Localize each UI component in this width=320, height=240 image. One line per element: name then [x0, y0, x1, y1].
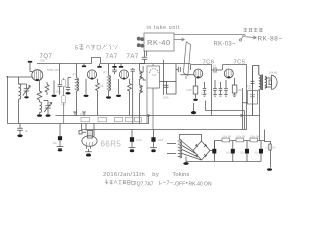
- right link lines: [242, 103, 253, 115]
- resistor boxes between buses: [81, 117, 142, 122]
- tube 7C5 V5: [224, 69, 233, 78]
- svg-text:66R5: 66R5: [101, 140, 122, 149]
- tube 7C6 V4: [194, 69, 203, 78]
- blob ground tube1 cathode: [52, 95, 57, 97]
- wire bus3 y129.5: [82, 116, 247, 130]
- svg-text:RK-03~: RK-03~: [214, 41, 237, 47]
- tube 7A7 V3: [119, 70, 128, 79]
- svg-text:-OFF: -OFF: [174, 181, 186, 187]
- svg-text:100n 2W: 100n 2W: [250, 136, 260, 138]
- wire 7C6 plate frame: [191, 65, 212, 116]
- cap left of tube3: [112, 68, 118, 94]
- blob ground PT: [183, 162, 188, 165]
- power transformer PT: [167, 135, 202, 159]
- svg-text:Tokinx: Tokinx: [172, 172, 189, 178]
- cap 47n box: [248, 91, 258, 105]
- filter electrolytics: [214, 141, 216, 162]
- grid box 7C6: [160, 60, 177, 95]
- resistor R osc: [37, 81, 42, 102]
- antenna coil L1: [7, 76, 32, 124]
- svg-text:200n: 200n: [40, 60, 46, 63]
- capacitor 47u on output line: [251, 81, 255, 83]
- svg-text:5: 5: [75, 46, 78, 52]
- ground blob osc coil: [37, 114, 42, 116]
- svg-text:2016/Jan/11th: 2016/Jan/11th: [103, 172, 145, 178]
- wire bus1 y115.5: [56, 115, 260, 117]
- connector jacks on RK-40: [137, 37, 144, 48]
- svg-text:RK-88~: RK-88~: [258, 36, 283, 43]
- svg-text:47u: 47u: [247, 85, 252, 88]
- junction arrow marks on bus1: [148, 114, 244, 116]
- blob ground IFT2: [106, 96, 111, 98]
- svg-text:10KxB: 10KxB: [269, 71, 278, 75]
- bleeder resistor 1k 2W: [265, 130, 272, 168]
- IFT2 transformer: [107, 64, 111, 97]
- svg-text:473: 473: [61, 103, 66, 107]
- bottom rail power: [186, 161, 261, 163]
- IFT1 transformer: [66, 64, 79, 116]
- screen cap blobs row: [84, 64, 121, 67]
- fake glyphs 球ヘテロダイン: [80, 44, 118, 50]
- heater stubs: [73, 112, 86, 116]
- svg-text:10u: 10u: [240, 152, 245, 155]
- wire 7C5 plate frame: [223, 65, 247, 116]
- svg-text:10uF: 10uF: [158, 138, 164, 142]
- caps under 7C5: [224, 78, 237, 97]
- under 7C6 resistor box: [193, 78, 198, 98]
- svg-text:470k: 470k: [80, 112, 86, 116]
- dropper resistor row: [215, 140, 265, 142]
- variable capacitor VC2: [44, 101, 52, 115]
- cathode cap tube1: [45, 64, 61, 96]
- switch node dots: [243, 34, 245, 36]
- bottom note: fake kanji 外部入力運用時: [105, 180, 134, 185]
- speaker SP: [269, 75, 277, 90]
- wire left antenna vertical: [7, 76, 9, 124]
- fake katakana heater: [159, 181, 173, 185]
- box RK-40 unit: [144, 33, 174, 51]
- svg-text:1uF: 1uF: [152, 73, 157, 77]
- detector box: [147, 64, 160, 130]
- wire B+ top rail: [37, 58, 191, 64]
- svg-text:7C5: 7C5: [234, 59, 246, 65]
- svg-text:in take unit: in take unit: [147, 25, 180, 31]
- svg-text:RK-40 ON: RK-40 ON: [189, 181, 212, 187]
- svg-text:IFT: IFT: [103, 71, 107, 75]
- svg-text:50BD-1604: 50BD-1604: [47, 68, 61, 72]
- tube2 cathode parts: [86, 79, 99, 116]
- wire vertical x242.5: [242, 88, 244, 130]
- bridge rectifier BR: [182, 141, 215, 163]
- arrow from RK-40: [174, 38, 185, 41]
- variable capacitor VC1: [19, 84, 31, 96]
- svg-text:0.01: 0.01: [211, 64, 217, 68]
- svg-text:RK-40: RK-40: [147, 38, 171, 47]
- electrolytic caps on bus3: [131, 130, 133, 138]
- cap 4u left bottom: [17, 124, 23, 135]
- tube3 cathode resistor: [128, 68, 135, 124]
- magic eye 66R5 tube: [79, 124, 97, 154]
- cap left of 7C6: [176, 67, 194, 75]
- svg-text:100n 2W: 100n 2W: [236, 136, 246, 138]
- tube 7A7 V2: [87, 70, 96, 79]
- svg-text:10u: 10u: [226, 152, 231, 155]
- svg-text:470k: 470k: [186, 88, 192, 92]
- ground blob VC2: [46, 114, 51, 116]
- coupling cap 7C6-7C5: [212, 67, 223, 72]
- wire vertical x259.5 speaker return: [259, 90, 261, 141]
- svg-text:10u: 10u: [53, 141, 58, 145]
- svg-text:180: 180: [238, 88, 243, 92]
- cap stack below RK-40: [140, 51, 148, 64]
- svg-text:1u8: 1u8: [99, 84, 104, 88]
- wire bus2 y123.5 with jog up: [8, 116, 149, 124]
- electrolytic 10u mid: [59, 124, 61, 137]
- svg-text:500k: 500k: [163, 96, 169, 100]
- svg-text:100n: 100n: [201, 92, 207, 96]
- wire B+ feed y110.5: [206, 101, 245, 130]
- svg-text:by: by: [152, 172, 159, 178]
- value boxes left: [63, 78, 65, 124]
- svg-text:10uF: 10uF: [136, 138, 142, 142]
- ground blob VC1: [24, 96, 28, 98]
- tilted bar component: [183, 42, 190, 79]
- svg-text:100n 2W: 100n 2W: [222, 136, 232, 138]
- svg-text:7A7: 7A7: [127, 54, 139, 60]
- blob ground IFT1: [66, 92, 71, 94]
- svg-text:7Q7.7A7: 7Q7.7A7: [134, 181, 154, 187]
- svg-text:270k: 270k: [152, 87, 158, 91]
- IFT3 detector transformer: [140, 64, 147, 124]
- grid cap tube1: [30, 63, 33, 72]
- blob junction x193.5: [193, 103, 195, 111]
- svg-text:1-u8: 1-u8: [44, 85, 50, 89]
- output transformer T-OUT: [253, 66, 272, 116]
- arrow to RK-88: [246, 36, 257, 39]
- wire RK-40 top line: [174, 34, 243, 36]
- svg-text:7A7: 7A7: [106, 54, 118, 60]
- svg-text:4u: 4u: [25, 129, 29, 133]
- svg-text:500n: 500n: [56, 90, 62, 94]
- tube 7Q7 V1: [32, 70, 43, 81]
- svg-text:IFT: IFT: [72, 73, 76, 77]
- oscillator coil L2: [40, 102, 42, 114]
- caps under 7C6: [203, 80, 223, 96]
- svg-text:10u: 10u: [254, 152, 259, 155]
- label power supply (fake kanji): [244, 28, 263, 32]
